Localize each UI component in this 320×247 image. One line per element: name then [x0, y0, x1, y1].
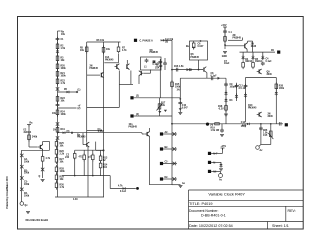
svg-text:Q: Q [39, 176, 41, 178]
svg-text:2.2k: 2.2k [60, 153, 65, 155]
svg-text:PA: PA [271, 49, 274, 52]
svg-text:C2-: C2- [165, 161, 169, 163]
svg-text:(2): (2) [78, 108, 81, 110]
svg-text:(2): (2) [136, 96, 139, 98]
svg-text:0.1uF: 0.1uF [120, 191, 127, 193]
svg-text:R6 10k: R6 10k [97, 40, 105, 42]
svg-text:(0): (0) [165, 42, 168, 44]
svg-text:Sheet: 1/1: Sheet: 1/1 [272, 224, 289, 228]
svg-text:100k: 100k [24, 173, 30, 175]
svg-text:(0): (0) [67, 131, 70, 133]
svg-text:1%: 1% [177, 90, 180, 92]
svg-text:100k: 100k [24, 195, 30, 197]
svg-text:Variable Clock R40Y: Variable Clock R40Y [208, 192, 245, 197]
svg-text:100k: 100k [61, 75, 67, 77]
svg-text:604-1094-001 RevB1: 604-1094-001 RevB1 [26, 219, 49, 222]
svg-text:4.7k: 4.7k [118, 185, 123, 188]
svg-text:(4): (4) [210, 123, 213, 126]
svg-text:Printed by CircuitMaker 2000: Printed by CircuitMaker 2000 [6, 176, 9, 209]
svg-text:0.1uF: 0.1uF [211, 76, 218, 78]
svg-text:(2): (2) [136, 114, 139, 116]
svg-text:D2-: D2- [165, 177, 169, 179]
svg-text:1.5k 1W: 1.5k 1W [211, 130, 221, 132]
svg-text:10uF: 10uF [224, 63, 230, 65]
svg-text:R16 1.5k: R16 1.5k [174, 66, 184, 68]
svg-text:0.047: 0.047 [98, 130, 105, 133]
svg-text:3646: 3646 [268, 115, 274, 118]
svg-text:-0.2V: -0.2V [218, 108, 224, 110]
svg-text:PN3645: PN3645 [233, 36, 242, 39]
svg-text:C. PHASE A: C. PHASE A [140, 40, 154, 43]
svg-text:1%: 1% [53, 130, 56, 132]
svg-text:100k: 100k [61, 68, 67, 70]
svg-text:10A: 10A [155, 67, 160, 70]
svg-text:PN3645: PN3645 [90, 67, 99, 70]
svg-text:D-BB-R401-0-1: D-BB-R401-0-1 [201, 213, 226, 217]
svg-text:C15: C15 [263, 135, 268, 137]
svg-text:4.7k: 4.7k [60, 186, 65, 189]
svg-text:3HCH4: 3HCH4 [24, 131, 32, 134]
svg-text:TITLE: P4019: TITLE: P4019 [189, 202, 212, 206]
svg-text:0.1uF: 0.1uF [153, 64, 160, 66]
svg-text:0.047: 0.047 [198, 45, 205, 48]
svg-text:4.7k: 4.7k [122, 49, 127, 52]
svg-text:4.7k: 4.7k [61, 82, 66, 85]
svg-text:Document Number:: Document Number: [189, 209, 218, 213]
svg-text:100k: 100k [24, 161, 30, 163]
svg-text:A2-: A2- [165, 131, 169, 134]
svg-text:+15V: +15V [221, 146, 227, 148]
svg-text:340k: 340k [32, 136, 38, 139]
svg-text:100k: 100k [61, 114, 67, 116]
svg-text:100p: 100p [241, 126, 247, 128]
svg-text:3.5-13: 3.5-13 [239, 88, 246, 90]
svg-text:PN3645: PN3645 [248, 106, 257, 109]
svg-text:PN3645: PN3645 [191, 56, 200, 59]
svg-text:0.047: 0.047 [182, 106, 189, 109]
svg-text:100k: 100k [279, 88, 285, 90]
svg-text:3646: 3646 [251, 45, 257, 48]
svg-text:4T1: 4T1 [78, 156, 83, 159]
svg-text:B2-: B2- [165, 147, 169, 149]
svg-text:4.33: 4.33 [73, 198, 78, 201]
svg-text:1.5k: 1.5k [61, 48, 66, 50]
svg-text:3646: 3646 [267, 73, 273, 76]
svg-text:(1): (1) [78, 90, 81, 92]
svg-text:PN3645: PN3645 [105, 58, 114, 61]
svg-text:C14: C14 [241, 121, 246, 124]
svg-text:100k: 100k [24, 184, 30, 186]
svg-text:100k: 100k [60, 171, 66, 173]
svg-text:GND: GND [222, 56, 227, 58]
svg-text:4.7k: 4.7k [46, 157, 51, 160]
svg-text:REV:: REV: [288, 209, 296, 213]
svg-text:PN3645: PN3645 [77, 136, 86, 139]
svg-text:0.1uF: 0.1uF [266, 61, 273, 63]
svg-text:PN3645: PN3645 [129, 125, 138, 128]
svg-text:PN3645: PN3645 [150, 51, 159, 54]
svg-text:Date: 10/22/2012 07:02:54: Date: 10/22/2012 07:02:54 [189, 224, 233, 228]
svg-text:R31: R31 [61, 129, 66, 131]
